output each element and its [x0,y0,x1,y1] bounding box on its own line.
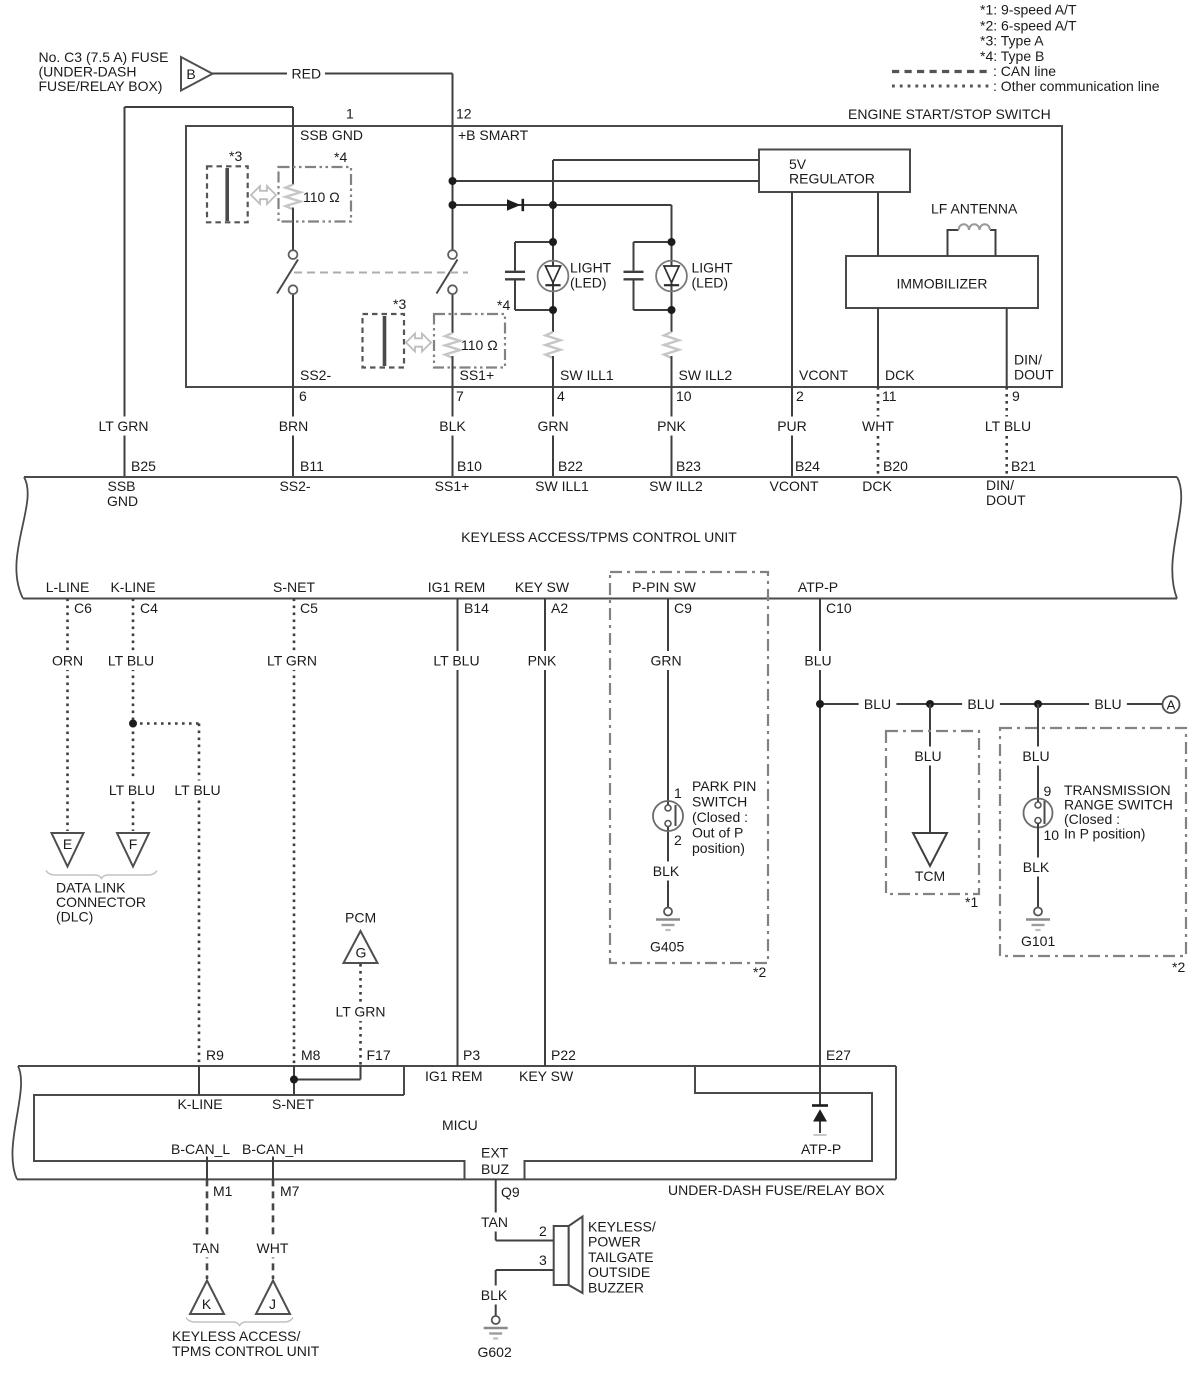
svg-text:F17: F17 [367,1047,391,1063]
svg-text:K-LINE: K-LINE [177,1096,222,1112]
svg-text:WHT: WHT [862,418,894,434]
svg-text:KEYLESS ACCESS/TPMS CONTROL UN: KEYLESS ACCESS/TPMS CONTROL UNIT [461,529,737,545]
svg-text:LT BLU: LT BLU [109,782,155,798]
svg-text:12: 12 [456,106,472,122]
svg-text:TAN: TAN [193,1240,220,1256]
svg-text:B-CAN_H: B-CAN_H [242,1141,303,1157]
svg-text:KEY SW: KEY SW [515,579,570,595]
svg-text:GRN: GRN [537,418,568,434]
svg-text:B11: B11 [300,458,324,474]
svg-text:PNK: PNK [657,418,686,434]
svg-text:SS1+: SS1+ [460,367,495,383]
svg-text:*4: *4 [497,297,510,313]
svg-text:*2: *2 [1172,959,1185,975]
svg-text:BLU: BLU [804,653,831,669]
svg-text:2: 2 [539,1223,547,1239]
svg-text:BLU: BLU [1094,696,1121,712]
svg-text:TCM: TCM [915,868,945,884]
svg-text:SW ILL2: SW ILL2 [679,367,733,383]
svg-text:ORN: ORN [52,653,83,669]
svg-text:(DLC): (DLC) [56,909,93,925]
svg-text:P-PIN SW: P-PIN SW [632,579,697,595]
svg-text:B21: B21 [1011,458,1036,474]
svg-text:SW ILL2: SW ILL2 [649,478,703,494]
svg-text:LT BLU: LT BLU [174,782,220,798]
svg-text:B14: B14 [464,600,489,616]
svg-text:K-LINE: K-LINE [110,579,155,595]
svg-text:BLK: BLK [439,418,466,434]
svg-text:+B SMART: +B SMART [458,127,529,143]
svg-text:IG1 REM: IG1 REM [425,1068,483,1084]
svg-text:OUTSIDE: OUTSIDE [588,1264,650,1280]
svg-text:A2: A2 [551,600,568,616]
svg-text:KEYLESS ACCESS/: KEYLESS ACCESS/ [172,1328,301,1344]
svg-text:BLU: BLU [864,696,891,712]
svg-text:SSB GND: SSB GND [300,127,363,143]
svg-text:POWER: POWER [588,1234,641,1250]
svg-text:11: 11 [882,388,897,404]
svg-text:G101: G101 [1021,933,1055,949]
svg-text:B24: B24 [795,458,820,474]
svg-text:C5: C5 [300,600,318,616]
svg-text:9: 9 [1044,783,1052,799]
svg-text:In P position): In P position) [1064,826,1145,842]
svg-text:P3: P3 [463,1047,480,1063]
svg-text:GND: GND [107,493,138,509]
svg-text:C10: C10 [826,600,852,616]
svg-text:LF ANTENNA: LF ANTENNA [931,201,1018,217]
svg-text:SS1+: SS1+ [435,478,470,494]
svg-text:LT BLU: LT BLU [108,653,154,669]
svg-text:A: A [1167,698,1176,713]
svg-text:TAN: TAN [481,1214,508,1230]
svg-text:(LED): (LED) [692,275,729,291]
svg-text:DCK: DCK [862,478,892,494]
svg-text:PNK: PNK [528,653,557,669]
svg-text:110 Ω: 110 Ω [303,189,340,205]
svg-text:BLK: BLK [1023,859,1050,875]
svg-text:DCK: DCK [885,367,915,383]
svg-text:ENGINE START/STOP SWITCH: ENGINE START/STOP SWITCH [848,106,1051,122]
svg-text:TAILGATE: TAILGATE [588,1249,654,1265]
svg-text:7: 7 [456,388,464,404]
svg-text:P22: P22 [551,1047,576,1063]
svg-text:C4: C4 [140,600,158,616]
svg-text:K: K [202,1296,212,1312]
svg-text:IG1 REM: IG1 REM [428,579,486,595]
svg-text:DIN/: DIN/ [986,477,1014,493]
svg-text:PCM: PCM [345,910,376,926]
svg-text:C9: C9 [674,600,692,616]
svg-text:B-CAN_L: B-CAN_L [171,1141,230,1157]
svg-text:(LED): (LED) [570,275,607,291]
svg-text:S-NET: S-NET [273,579,315,595]
svg-text:SWITCH: SWITCH [692,794,747,810]
svg-text:3: 3 [539,1252,547,1268]
svg-text:*2: *2 [753,964,766,980]
svg-text:BUZ: BUZ [481,1161,509,1177]
svg-text:VCONT: VCONT [799,367,848,383]
svg-text:B: B [186,66,195,82]
svg-text:MICU: MICU [442,1117,478,1133]
svg-text:*4: *4 [334,149,347,165]
svg-text:SS2-: SS2- [300,367,331,383]
svg-text:*3: *3 [393,296,406,312]
svg-text:*2: 6-speed A/T: *2: 6-speed A/T [980,18,1077,34]
svg-text:E27: E27 [826,1047,851,1063]
svg-text:BRN: BRN [279,418,309,434]
svg-text:DOUT: DOUT [1014,367,1054,383]
svg-text:: Other communication line: : Other communication line [993,78,1160,94]
svg-text:*4: Type B: *4: Type B [980,48,1044,64]
svg-text:B10: B10 [457,458,482,474]
svg-text:BUZZER: BUZZER [588,1279,644,1295]
svg-text:LT BLU: LT BLU [433,653,479,669]
svg-text:G405: G405 [650,939,684,955]
svg-text:110 Ω: 110 Ω [461,337,498,353]
svg-text:: CAN line: : CAN line [993,63,1056,79]
svg-text:B20: B20 [883,458,908,474]
svg-text:EXT: EXT [481,1145,509,1161]
svg-text:E: E [63,836,72,852]
svg-text:9: 9 [1012,388,1020,404]
svg-text:G: G [356,945,367,961]
svg-text:WHT: WHT [257,1240,289,1256]
svg-text:LT GRN: LT GRN [335,1004,385,1020]
svg-text:KEY SW: KEY SW [519,1068,574,1084]
svg-text:SS2-: SS2- [279,478,310,494]
svg-text:*3: *3 [229,148,242,164]
svg-text:M7: M7 [280,1183,300,1199]
svg-text:R9: R9 [206,1047,224,1063]
svg-text:B22: B22 [558,458,583,474]
svg-text:Q9: Q9 [501,1184,520,1200]
svg-text:BLU: BLU [967,696,994,712]
svg-text:1: 1 [674,785,682,801]
svg-text:DIN/: DIN/ [1014,352,1042,368]
svg-text:*1: 9-speed A/T: *1: 9-speed A/T [980,2,1077,18]
svg-text:BLK: BLK [481,1287,508,1303]
svg-text:4: 4 [557,388,565,404]
svg-text:J: J [269,1296,276,1312]
svg-text:LT GRN: LT GRN [98,418,148,434]
svg-text:*1: *1 [965,894,978,910]
svg-text:LT BLU: LT BLU [985,418,1031,434]
svg-text:6: 6 [299,388,307,404]
svg-text:B25: B25 [131,458,156,474]
svg-text:*3: Type A: *3: Type A [980,33,1044,49]
svg-text:2: 2 [796,388,804,404]
svg-text:LT GRN: LT GRN [267,653,317,669]
svg-text:IMMOBILIZER: IMMOBILIZER [896,276,987,292]
svg-text:10: 10 [1044,827,1060,843]
svg-text:position): position) [692,840,745,856]
svg-text:PUR: PUR [777,418,807,434]
svg-text:LIGHT: LIGHT [692,260,734,276]
svg-text:VCONT: VCONT [770,478,819,494]
svg-text:10: 10 [676,388,692,404]
svg-text:LIGHT: LIGHT [570,260,612,276]
svg-text:TPMS CONTROL UNIT: TPMS CONTROL UNIT [172,1343,320,1359]
svg-text:ATP-P: ATP-P [798,579,838,595]
svg-text:L-LINE: L-LINE [46,579,90,595]
svg-text:BLU: BLU [914,748,941,764]
svg-text:REGULATOR: REGULATOR [789,171,875,187]
svg-text:B23: B23 [676,458,701,474]
svg-text:UNDER-DASH FUSE/RELAY BOX: UNDER-DASH FUSE/RELAY BOX [668,1182,885,1198]
svg-text:F: F [129,836,138,852]
svg-text:(Closed :: (Closed : [692,809,748,825]
svg-text:RED: RED [292,66,322,82]
svg-text:1: 1 [346,106,354,122]
svg-text:SSB: SSB [107,478,135,494]
svg-text:SW ILL1: SW ILL1 [560,367,614,383]
svg-text:M1: M1 [213,1183,233,1199]
svg-text:ATP-P: ATP-P [801,1141,841,1157]
svg-text:BLU: BLU [1022,748,1049,764]
svg-text:PARK PIN: PARK PIN [692,778,756,794]
svg-text:M8: M8 [301,1047,321,1063]
svg-text:Out of P: Out of P [692,825,743,841]
svg-text:2: 2 [674,832,682,848]
svg-text:SW ILL1: SW ILL1 [535,478,589,494]
svg-text:C6: C6 [74,600,92,616]
svg-text:KEYLESS/: KEYLESS/ [588,1219,656,1235]
svg-text:G602: G602 [478,1344,512,1360]
svg-text:DOUT: DOUT [986,492,1026,508]
svg-text:S-NET: S-NET [272,1096,314,1112]
svg-text:FUSE/RELAY BOX): FUSE/RELAY BOX) [39,78,163,94]
svg-text:BLK: BLK [653,863,680,879]
svg-text:GRN: GRN [650,653,681,669]
